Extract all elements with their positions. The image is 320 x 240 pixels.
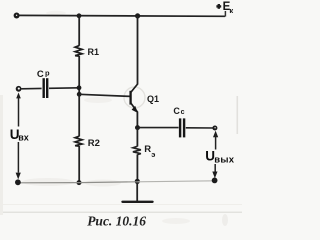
wire emitter to Re <box>136 128 138 147</box>
wire R1 top lead <box>78 16 80 46</box>
node top rail / R1 junction <box>77 13 82 18</box>
resistor Re <box>133 146 141 154</box>
resistor R2 <box>75 136 82 146</box>
svg-text:Q1: Q1 <box>147 94 159 104</box>
wire input indicator lower <box>17 142 19 173</box>
svg-text:с: с <box>181 109 185 116</box>
wire Cp to base node <box>49 87 79 90</box>
capacitor Cc <box>180 118 184 137</box>
wire collector <box>137 16 139 85</box>
terminal input top <box>16 86 22 92</box>
node left end of top rail <box>14 13 20 19</box>
wire Cc to output terminal <box>186 127 215 129</box>
terminal output bottom <box>212 178 218 184</box>
svg-text:R1: R1 <box>88 47 100 57</box>
wire input coupling to divider <box>21 87 41 89</box>
svg-text:к: к <box>229 6 233 15</box>
wire emitter to output node <box>136 112 138 129</box>
wire input indicator upper <box>16 93 21 99</box>
svg-text:э: э <box>151 150 155 159</box>
svg-text:р: р <box>45 68 50 77</box>
svg-text:вх: вх <box>18 133 29 143</box>
transistor faded circle <box>124 87 145 108</box>
node Cp junction <box>77 85 82 90</box>
paper background <box>0 0 242 239</box>
wire Re bottom lead <box>136 154 138 181</box>
terminal input bottom <box>15 179 21 185</box>
wire output node to Cc <box>138 127 179 129</box>
svg-text:R2: R2 <box>88 138 100 149</box>
wire output indicator lower <box>214 164 216 172</box>
svg-text:Рис. 10.16: Рис. 10.16 <box>87 213 146 228</box>
node ground junction <box>135 179 140 184</box>
node emitter / output junction <box>135 125 140 130</box>
wire R1 bottom lead <box>78 56 80 96</box>
wire +Ek stub <box>224 11 226 17</box>
faint right-edge streak <box>237 96 239 134</box>
wire bottom rail <box>18 182 137 183</box>
transistor Q1 <box>131 84 138 113</box>
wire R2 top lead <box>78 94 80 136</box>
node R2 bottom <box>77 180 82 185</box>
wire base <box>79 94 130 96</box>
capacitor Cp <box>44 78 48 98</box>
wire R2 bottom lead <box>78 146 80 183</box>
wire output indicator upper <box>213 131 218 138</box>
ground <box>123 181 153 201</box>
node base junction <box>77 92 82 97</box>
svg-text:вых: вых <box>214 155 235 166</box>
wire top rail <box>16 14 225 17</box>
node +Ek plus terminal <box>216 4 221 9</box>
resistor R1 <box>75 46 82 57</box>
svg-text:С: С <box>37 69 44 80</box>
faint horizontal rule artifact <box>0 212 242 213</box>
node top rail / collector junction <box>135 13 140 18</box>
svg-text:С: С <box>173 106 180 116</box>
terminal output top <box>212 126 217 131</box>
svg-text:R: R <box>144 144 151 155</box>
